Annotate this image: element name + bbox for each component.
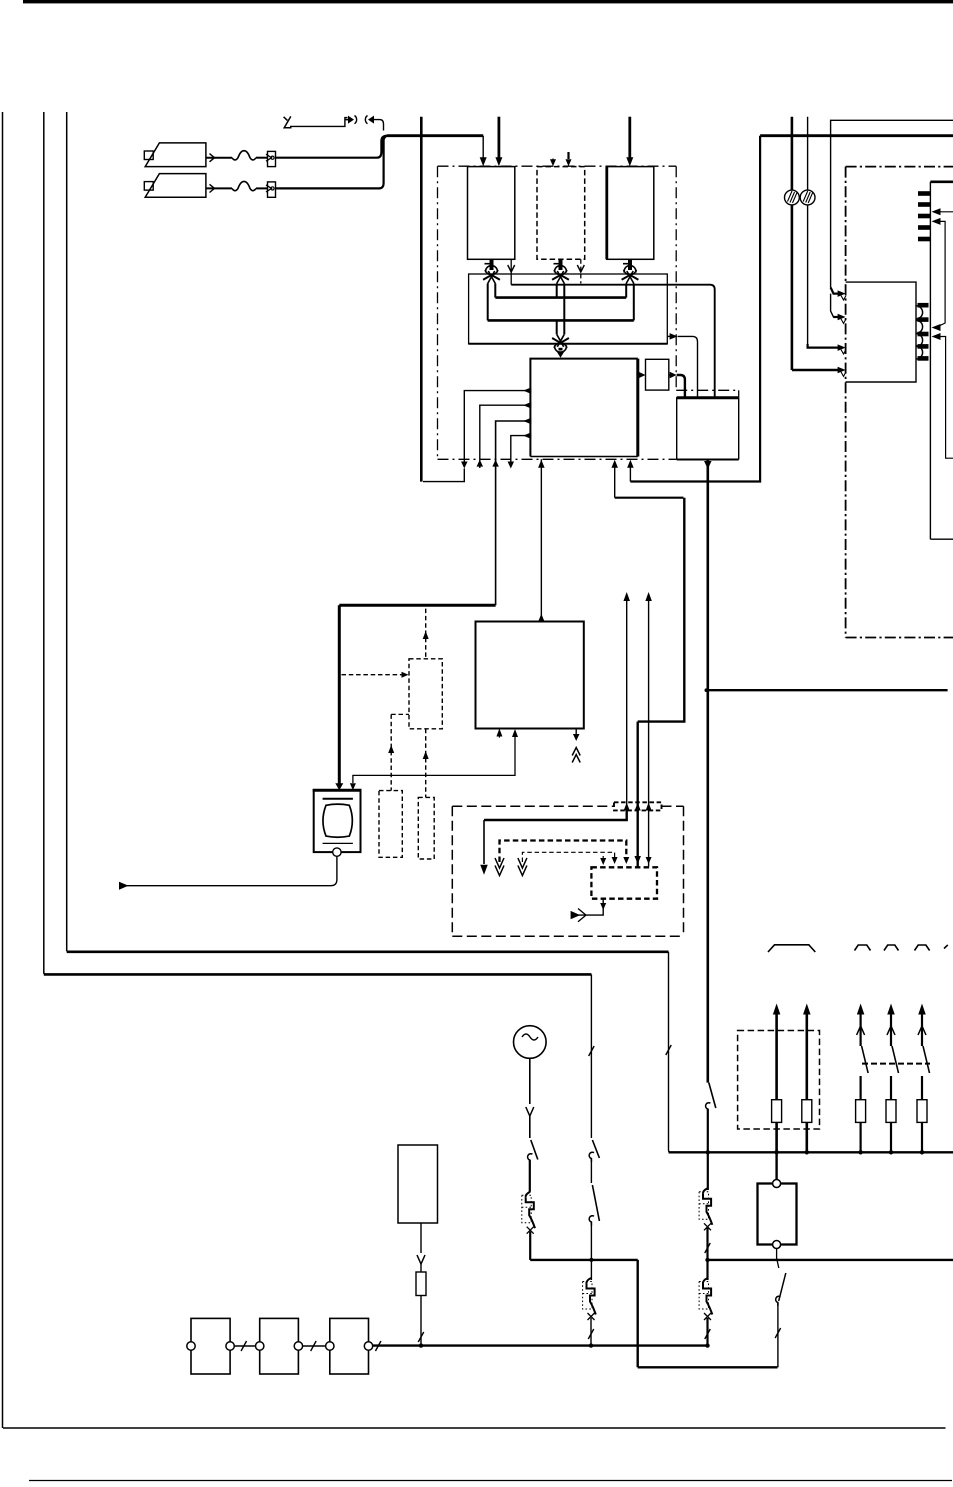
wire W1 drop x684	[638, 498, 685, 722]
page hat 4 partial	[944, 945, 948, 949]
wire col2 from y974	[590, 974, 592, 1138]
enclosure tv tuner (dash-dot)	[846, 166, 953, 168]
bus junction box	[469, 274, 668, 344]
wire nav riser (x541)	[540, 459, 542, 620]
wire page stub x649 to relay	[648, 594, 650, 867]
breaker CB3	[699, 1192, 708, 1220]
block U2 (dashed)	[537, 167, 585, 260]
box DB3 (dashed)	[379, 791, 402, 858]
wire monitor aux in	[353, 734, 515, 783]
wire into M y294	[831, 288, 841, 294]
strip arrows	[624, 803, 630, 811]
noise filter L2	[807, 117, 809, 344]
fuse F1	[773, 1004, 781, 1015]
wire col3 switch S3	[709, 1083, 716, 1108]
noise filter L1	[791, 117, 794, 366]
breaker CB2	[583, 1282, 592, 1310]
wire relay out bottom	[578, 899, 603, 915]
page hat 1	[855, 945, 871, 951]
wire drop x638	[637, 1260, 639, 1367]
wire M1 down	[529, 1058, 531, 1104]
wire U5 to B2	[669, 374, 672, 376]
connector pair D	[559, 348, 563, 351]
wire thick drop to tuner (x499)	[497, 117, 500, 159]
wire L2 into M y348	[808, 344, 841, 348]
switch S2a	[592, 1140, 599, 1158]
wire dashed ctrl 1	[425, 609, 427, 659]
wire U4 to U5	[638, 374, 641, 376]
wire U4 out c to monitor bus	[523, 418, 531, 425]
wire thick drop to amp block (x630)	[628, 117, 631, 159]
breaker CB4	[699, 1282, 708, 1310]
wire monitor ground out	[126, 856, 337, 885]
speaker SP1	[145, 143, 206, 167]
wire U4 out b	[523, 402, 531, 409]
coil on block M	[916, 306, 923, 319]
wire CB1 to bus	[529, 1232, 531, 1260]
page stub chevrons U6	[572, 748, 580, 756]
fuse F3 with switch	[857, 1004, 865, 1015]
stub arrow U6 bottom	[498, 735, 500, 738]
box DB1 (dashed)	[409, 659, 442, 729]
wire CB4 to battery bus	[706, 1318, 708, 1346]
wire R1 down with fuse F6	[420, 1223, 422, 1253]
antenna symbol	[284, 116, 292, 127]
block R1 resistor unit	[398, 1145, 438, 1223]
wire bus y1260 right	[706, 1259, 953, 1261]
switch S2b	[590, 1159, 592, 1184]
fuse F5 with switch	[918, 1004, 926, 1015]
wire U4 out a	[523, 387, 531, 394]
wire arrow up at x630	[629, 462, 631, 482]
page left border	[2, 112, 4, 1428]
wire x668 drop	[668, 952, 670, 1150]
block CRT right (tall)	[929, 182, 931, 539]
wire thick inside enclosure	[484, 810, 627, 820]
battery link 1	[234, 1345, 255, 1347]
wire bus out right	[667, 335, 675, 337]
stub arrow into block U2 (x568)	[567, 152, 569, 159]
fuse F2	[803, 1004, 811, 1015]
block U1 tuner	[468, 167, 515, 260]
page bracket wide	[768, 945, 815, 952]
block U6 nav computer	[476, 622, 584, 729]
stub U6 down-arrow	[575, 729, 577, 737]
connector pair B	[559, 259, 563, 270]
wire W1 drop to relay (x638)	[637, 722, 639, 867]
wire K1 bottom switch	[777, 1249, 779, 1269]
page top bar	[23, 0, 953, 3]
page hat 3	[915, 945, 930, 951]
wire bus y952	[67, 950, 669, 953]
fuse F4 with switch	[887, 1004, 895, 1015]
switch S1	[531, 1140, 538, 1160]
wire page stub x627	[626, 594, 628, 820]
wire dashed ctrl 3	[391, 713, 409, 715]
wire K1 top	[775, 1152, 777, 1179]
battery link 2	[303, 1345, 326, 1347]
speaker SP2	[145, 174, 206, 198]
wire audio feed top	[387, 134, 484, 137]
connector strip (bold dashed)	[614, 802, 662, 810]
wire drop x760	[630, 136, 760, 482]
page bottom frame line	[3, 1427, 946, 1429]
wire top right thick	[760, 134, 953, 137]
wire U4 out d	[523, 432, 531, 439]
wire L1 into M y370	[791, 366, 794, 370]
breaker CB1	[522, 1195, 531, 1223]
wire crt pin to coil pin	[932, 218, 941, 225]
wire drop to tuner block	[482, 136, 484, 160]
wire bus y1152	[669, 1151, 953, 1153]
switch gang link (dashed)	[862, 1063, 930, 1065]
box DB2 (dashed)	[418, 797, 434, 859]
stub arrow into block U2 (x553)	[552, 159, 554, 161]
wire CB3 down	[706, 1228, 708, 1280]
connector antenna pair	[345, 119, 349, 121]
wire long left drop (x421)	[420, 117, 423, 482]
wire left bus 2 (x67)	[67, 112, 68, 952]
wire U2 aux (dashed stub)	[580, 259, 582, 283]
wire bus y974	[44, 973, 592, 976]
pins block M	[918, 303, 929, 308]
wire drop to arrow x484	[483, 820, 485, 864]
wire SP2 to connector	[206, 187, 232, 189]
block K1 relay	[758, 1184, 797, 1245]
wire relay dashed thin B2	[522, 852, 614, 862]
battery cell 1	[191, 1318, 230, 1374]
battery cell 2	[260, 1318, 299, 1374]
page bottom rule	[29, 1480, 952, 1482]
wire bus y1260 left segment	[530, 1259, 638, 1261]
wire left bus 1 (x44)	[44, 112, 45, 974]
wire bus y690	[706, 689, 947, 691]
battery cell 3	[330, 1318, 369, 1374]
wire coil pin out right	[932, 333, 941, 340]
wire top right thin	[831, 120, 953, 287]
wire B2 main out (long drop)	[704, 461, 712, 469]
block U5 interface	[646, 359, 669, 390]
block U3 amplifier	[607, 167, 654, 260]
junction col2 bus1260	[589, 1258, 593, 1262]
wire monitor feed drop	[338, 605, 341, 783]
connector pair C	[628, 259, 632, 270]
wire bus y1367	[638, 1366, 778, 1368]
block U4 head unit	[530, 359, 637, 457]
wire dashed ctrl 4	[425, 729, 427, 798]
monitor display	[314, 790, 361, 852]
battery out slash	[375, 1341, 381, 1351]
wire antenna to radio	[374, 120, 384, 131]
connector pair A	[490, 259, 494, 270]
wire SP1 to connector	[206, 157, 232, 159]
wire battery bus y1346	[373, 1344, 707, 1346]
wire CB2 to battery bus	[590, 1318, 592, 1346]
bus wire H1	[495, 296, 626, 299]
wire SP1 feed	[276, 136, 387, 158]
block B2 power module	[677, 398, 739, 460]
wire W1 riser	[614, 462, 616, 498]
block M deflection unit	[846, 282, 916, 382]
wire U1 aux to B2	[510, 259, 512, 284]
wire SP2 feed	[276, 136, 389, 189]
wire crt pin from right	[936, 211, 953, 213]
connector J1	[268, 151, 276, 166]
wire dashed ctrl 2	[342, 674, 405, 676]
bus wire H2	[488, 319, 634, 322]
wire monitor feed horizontal	[339, 604, 495, 607]
relay box (bold dashed)	[591, 867, 657, 898]
pins block CRT	[918, 191, 930, 196]
wire relay dashed bold B1	[500, 841, 627, 863]
fuse box (dashed)	[738, 1031, 820, 1130]
enclosure radio unit (dash-dot)	[438, 165, 677, 167]
wire antenna lead	[290, 118, 348, 127]
motor M1	[514, 1026, 547, 1059]
connector J2	[268, 182, 276, 197]
stub arrow relay	[602, 856, 604, 859]
page hat 2	[884, 945, 899, 951]
wire into M y317	[831, 294, 841, 317]
enclosure body ECU (dashed)	[452, 805, 614, 807]
